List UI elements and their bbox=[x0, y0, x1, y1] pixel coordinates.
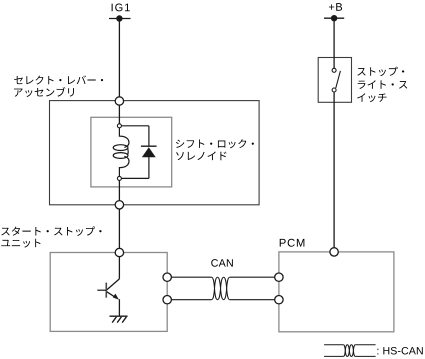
label: select lever assembly bbox=[14, 75, 103, 97]
wire diode bottom to solenoid bottom pin bbox=[122, 177, 149, 179]
label HS-CAN bbox=[377, 347, 422, 355]
node: PCM left pin 1 bbox=[275, 273, 283, 281]
node: connector circle bottom of select box bbox=[115, 201, 123, 209]
wire solenoid bottom pin to box edge bbox=[118, 180, 120, 204]
label PCM bbox=[280, 239, 305, 247]
node: connector circle top of select box bbox=[115, 97, 123, 105]
wire +B to stop light switch bbox=[333, 18, 335, 68]
power IG1 bbox=[109, 4, 131, 22]
wire CAN high bbox=[171, 276, 274, 278]
wire solenoid top to diode branch bbox=[121, 126, 148, 146]
twisted pair CAN bbox=[212, 277, 230, 300]
ground bbox=[110, 316, 128, 322]
wire stop light switch to PCM bbox=[333, 92, 335, 248]
label: stop light switch bbox=[357, 67, 407, 102]
box: stop light switch bbox=[318, 58, 351, 103]
node: solenoid bottom pin bbox=[117, 176, 121, 180]
box: select lever assembly bbox=[50, 101, 260, 205]
node: connector circle top of start stop unit bbox=[115, 248, 123, 256]
wire select box top circle to solenoid bbox=[118, 105, 120, 124]
label CAN bbox=[211, 259, 233, 267]
box: PCM bbox=[279, 252, 394, 332]
box: shift lock solenoid (inner) bbox=[91, 117, 172, 187]
label: start stop unit bbox=[1, 226, 101, 247]
node: start stop unit right pin 2 bbox=[163, 296, 171, 304]
node: PCM top pin bbox=[330, 248, 338, 256]
legend: HS-CAN twisted pair bbox=[324, 345, 376, 357]
label: shift lock solenoid bbox=[176, 139, 254, 160]
transistor Q (NPN) bbox=[97, 257, 119, 316]
power +B bbox=[324, 3, 344, 21]
wire IG1 to select box bbox=[118, 19, 120, 102]
wire CAN low bbox=[171, 299, 274, 301]
box: start stop unit bbox=[50, 253, 167, 332]
coil: shift lock solenoid bbox=[113, 128, 129, 177]
switch: stop light switch contacts bbox=[332, 68, 340, 92]
node: PCM left pin 2 bbox=[275, 296, 283, 304]
diode D (flyback) bbox=[141, 146, 157, 178]
node: solenoid top pin bbox=[117, 124, 121, 128]
wire select box to start stop unit bbox=[118, 209, 120, 253]
node: start stop unit right pin 1 bbox=[163, 273, 171, 281]
